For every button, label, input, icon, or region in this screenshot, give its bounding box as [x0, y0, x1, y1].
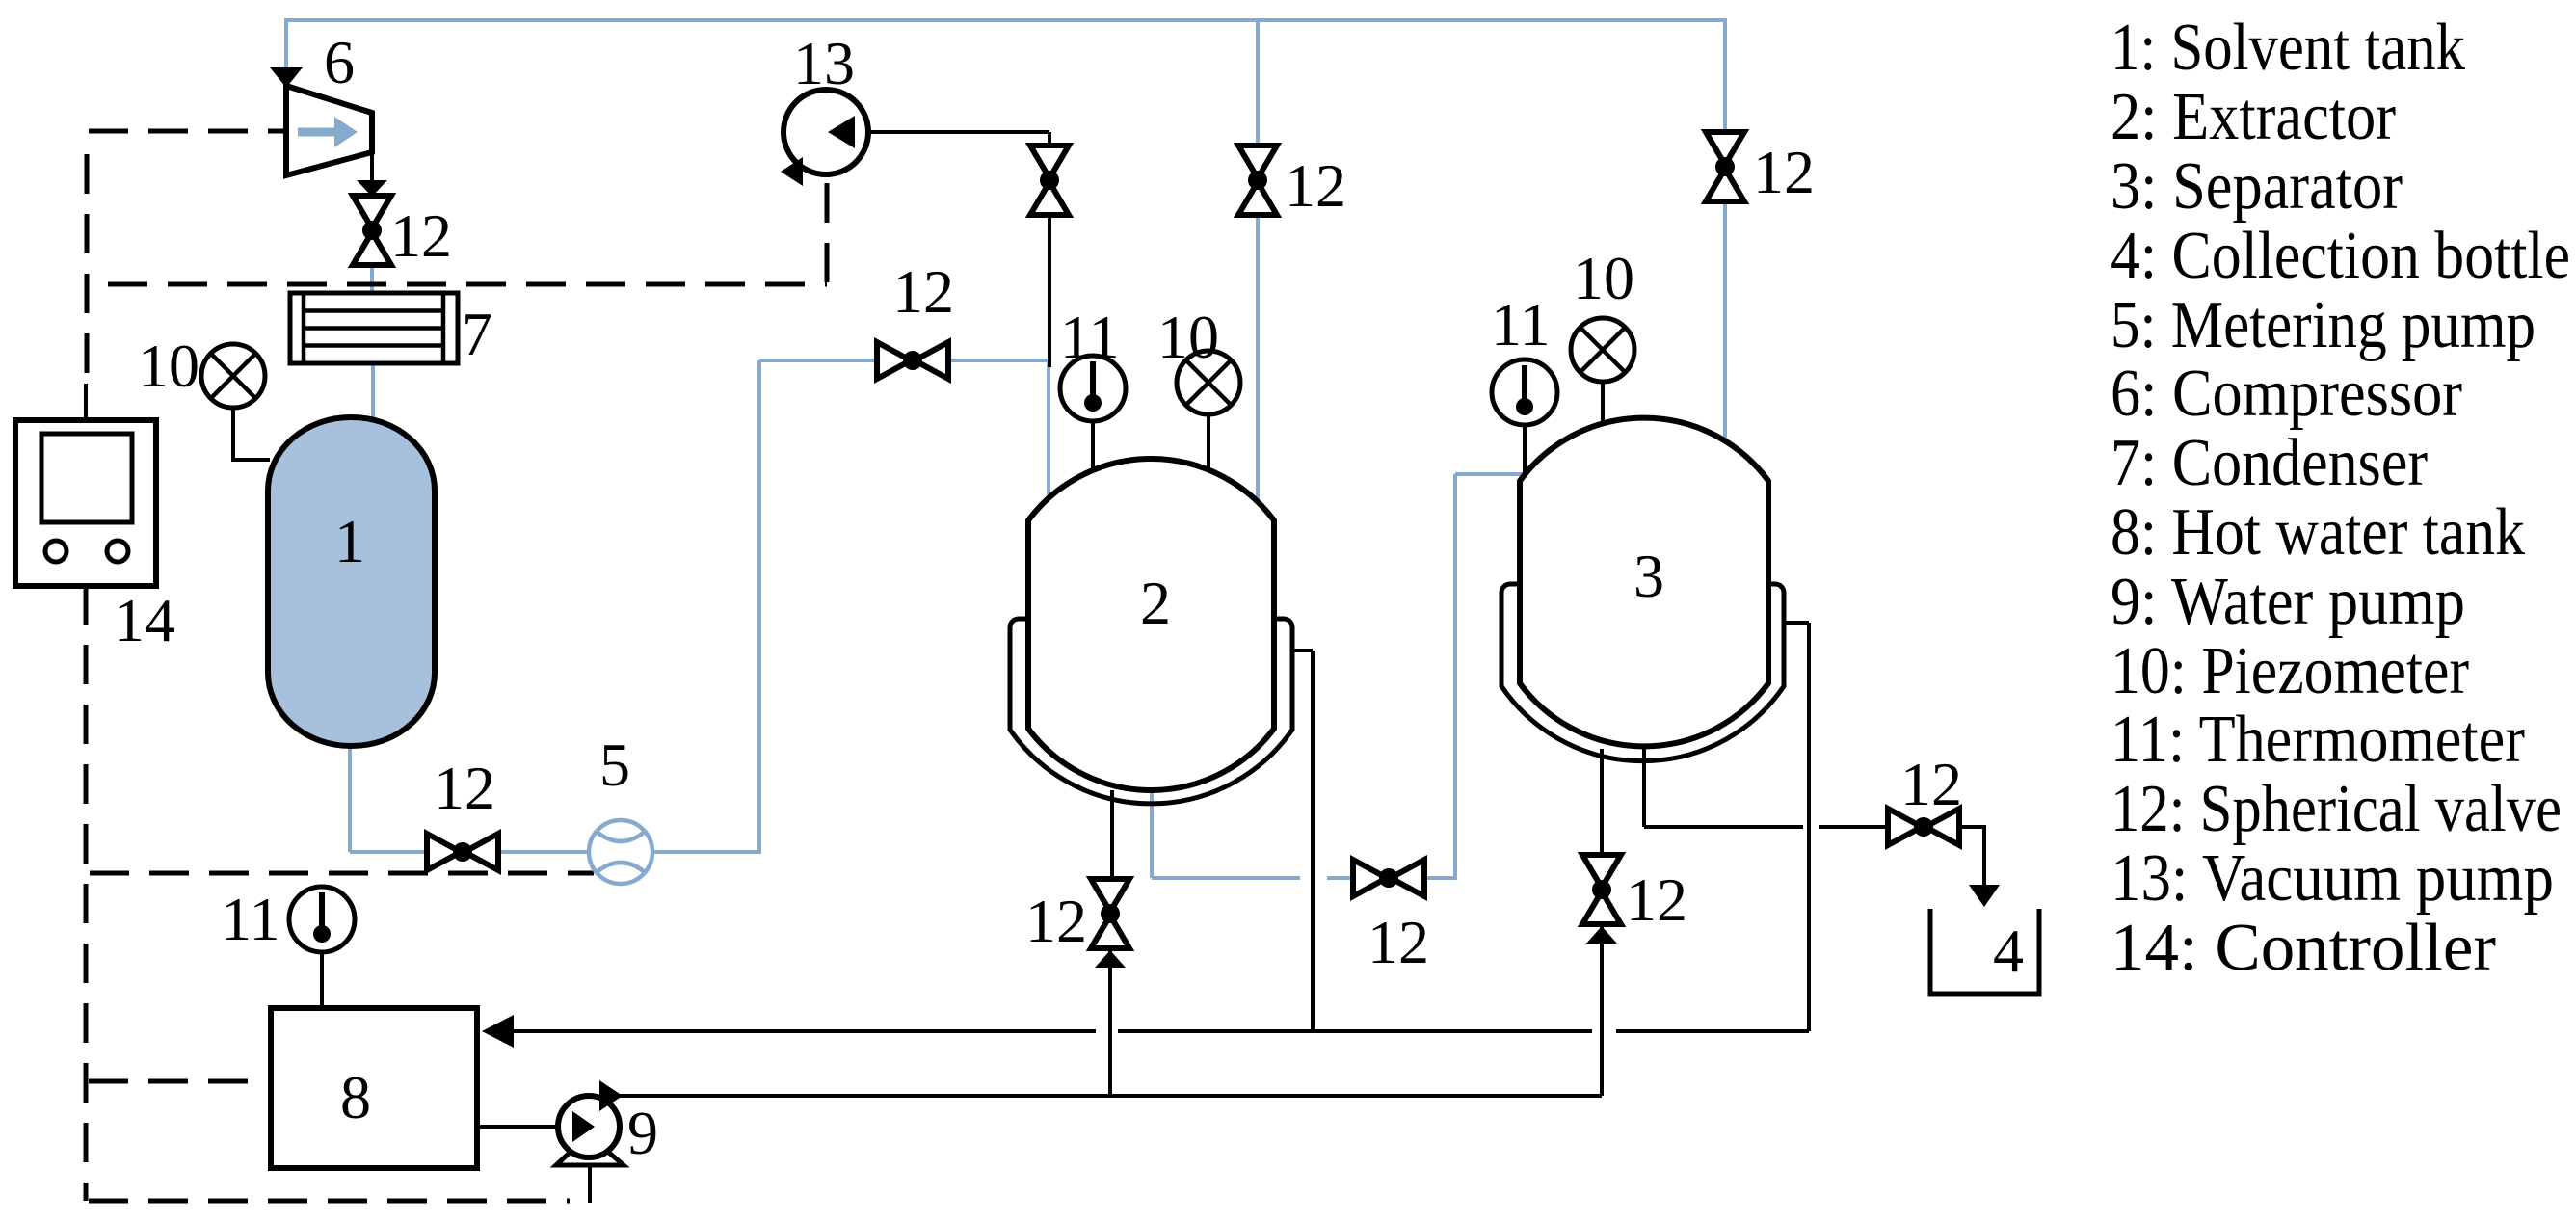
wire separator drain1 lower to supply line: [1600, 924, 1604, 1096]
wire blue extractor outlet horizontal to valve12g: [1327, 876, 1354, 880]
svg-text:7: Condenser: 7: Condenser: [2111, 426, 2428, 500]
wire hot water return middle segment: [1118, 1029, 1592, 1033]
thermometer 11b: [1060, 356, 1126, 421]
wire compressor outlet down: [370, 150, 374, 183]
svg-text:13: 13: [793, 29, 855, 97]
svg-text:14: Controller: 14: Controller: [2111, 911, 2496, 985]
svg-text:9: Water pump: 9: Water pump: [2111, 565, 2465, 639]
condenser 7: [290, 293, 458, 363]
svg-text:10: 10: [1157, 303, 1219, 371]
valve 12i bottle line: [1888, 809, 1959, 845]
wire extractor jacket stub: [1291, 649, 1313, 652]
svg-text:12: 12: [1753, 138, 1815, 206]
svg-text:4: 4: [1993, 917, 2024, 985]
wire extractor drain lower to supply line: [1108, 948, 1112, 1096]
controller 14: [15, 420, 156, 586]
wire blue top header: [286, 18, 1725, 22]
svg-text:5: Metering pump: 5: Metering pump: [2111, 288, 2536, 362]
valve 12f blue line: [877, 342, 948, 379]
svg-text:5: 5: [599, 731, 630, 799]
wire blue riser2 to separator left inlet: [1455, 472, 1523, 476]
dashed control riser to vacuum pump: [825, 176, 830, 282]
DASHED control lines: [86, 131, 827, 1201]
PIPES-BLUE: [286, 18, 1725, 880]
wire separator drain2 horizontal to valve12i: [1819, 825, 1887, 829]
metering pump 5: [589, 820, 652, 884]
arrow up separator drain: [1586, 926, 1617, 944]
dashed control left riser upper: [85, 154, 90, 384]
valve 12b vacuum line: [1030, 146, 1069, 215]
wire pump9 suction from tank8: [477, 1125, 574, 1129]
valve 12d separator top: [1706, 132, 1744, 201]
svg-text:12: 12: [892, 257, 954, 326]
svg-text:1: 1: [334, 507, 365, 575]
arrow down into bottle: [1969, 885, 2000, 907]
svg-text:10: 10: [138, 332, 199, 400]
vacuum pump 13: [781, 90, 868, 186]
svg-text:13: Vacuum pump: 13: Vacuum pump: [2111, 841, 2554, 916]
valve 12g extractor outlet blue: [1353, 860, 1424, 896]
wire separator drain2 horizontal left of crossing: [1644, 825, 1803, 829]
wire vacuum valve drop lower: [1048, 213, 1051, 367]
dashed control left riser lower: [84, 585, 89, 1201]
wire separator drain2 down: [1642, 749, 1646, 827]
svg-text:8: Hot water tank: 8: Hot water tank: [2111, 495, 2525, 570]
wire separator drain1 upper: [1600, 749, 1604, 855]
svg-text:12: 12: [1285, 151, 1346, 220]
wire extractor drain upper: [1110, 790, 1114, 879]
svg-text:6: 6: [324, 28, 355, 96]
svg-text:10: Piezometer: 10: Piezometer: [2111, 634, 2469, 708]
compressor 6: [270, 67, 372, 175]
wire piezometer10a to tank1: [233, 408, 270, 460]
wire blue condenser to tank1: [371, 363, 375, 418]
wire vacuum valve drop upper: [1048, 132, 1051, 147]
wire blue valve12d to separator dome: [1723, 201, 1727, 441]
wire thermometer11b stem to extractor: [1091, 421, 1095, 470]
svg-text:1: Solvent tank: 1: Solvent tank: [2111, 11, 2465, 85]
wire hot water return left segment: [513, 1029, 1096, 1033]
PIPES-BLACK: [86, 132, 1984, 1203]
svg-text:11: Thermometer: 11: Thermometer: [2111, 703, 2525, 777]
svg-text:8: 8: [340, 1063, 371, 1131]
wire pump9 stand stub: [588, 1166, 592, 1203]
svg-text:11: 11: [1491, 290, 1551, 359]
wire blue extractor outlet horizontal left part: [1152, 876, 1300, 880]
wire blue tank1 to valve12e: [350, 850, 428, 854]
svg-text:2: Extractor: 2: Extractor: [2111, 80, 2396, 154]
valve 12a compressor outlet: [353, 196, 391, 265]
wire blue compressor valve to condenser: [370, 261, 374, 294]
piezometer 10a: [201, 344, 265, 408]
wire blue riser2 up: [1453, 474, 1457, 880]
wire blue drop to separator valve: [1723, 18, 1727, 134]
extractor jacket: [1010, 619, 1292, 804]
wire blue riser to valve12f: [759, 359, 878, 362]
arrow return into tank8: [482, 1015, 514, 1048]
svg-text:12: 12: [1626, 865, 1687, 934]
wire piezometer10c stem to separator: [1601, 382, 1605, 425]
svg-text:11: 11: [1060, 303, 1120, 371]
thermometer 11a: [289, 887, 355, 952]
collection bottle 4: [1930, 909, 2039, 994]
svg-text:12: 12: [390, 201, 452, 270]
svg-text:14: 14: [114, 586, 175, 654]
svg-text:9: 9: [627, 1099, 658, 1167]
wire blue valve12c to extractor dome: [1256, 214, 1260, 500]
valve 12h extractor drain: [1091, 879, 1129, 948]
svg-text:12: 12: [1025, 887, 1087, 955]
extractor 2: [1028, 459, 1274, 790]
wire blue valve12f to extractor junction: [947, 359, 1049, 362]
wire controller stem: [84, 384, 88, 420]
svg-text:4: Collection bottle: 4: Collection bottle: [2111, 219, 2570, 293]
thermometer 11c: [1492, 359, 1557, 425]
arrow compressor outlet: [357, 180, 387, 197]
wire separator jacket stub: [1784, 621, 1809, 625]
wire hot water supply line: [618, 1094, 1602, 1098]
arrow up extractor drain: [1095, 950, 1126, 968]
wire blue metering pump to riser: [652, 850, 759, 854]
wire piezometer10b stem to extractor: [1207, 414, 1210, 471]
legend: [2111, 11, 2570, 985]
wire blue tank1 outlet down: [348, 744, 352, 852]
piezometer 10c: [1571, 318, 1634, 382]
svg-text:2: 2: [1140, 569, 1171, 637]
dashed control to hot water tank: [89, 1079, 271, 1084]
svg-text:6: Compressor: 6: Compressor: [2111, 357, 2462, 431]
dashed control to metering pump: [90, 871, 594, 876]
svg-text:3: Separator: 3: Separator: [2111, 149, 2403, 224]
wire valve12i to bottle drop: [1960, 827, 1984, 887]
valve 12j separator drain: [1582, 855, 1621, 924]
svg-text:3: 3: [1633, 542, 1664, 610]
wire blue drop to compressor inlet: [284, 18, 288, 67]
valve 12e tank1 outlet: [427, 834, 498, 870]
svg-text:12: 12: [1900, 750, 1962, 818]
dashed control to compressor: [89, 129, 283, 134]
wire thermometer11c stem to separator: [1523, 425, 1527, 476]
hot water tank 8: [271, 1008, 477, 1168]
dashed control to metering pump: [108, 282, 827, 287]
wire vacuum pump suction header: [848, 130, 1049, 134]
wire blue junction down to extractor dome left: [1047, 359, 1050, 500]
piezometer 10b: [1177, 351, 1240, 414]
solvent tank 1: [268, 417, 435, 746]
wire extractor jacket return drop: [1311, 651, 1315, 1031]
wire thermometer11a stem to tank8: [320, 951, 324, 1008]
svg-text:12: 12: [1368, 908, 1429, 976]
wire blue extractor bottom outlet: [1150, 786, 1154, 878]
separator jacket: [1501, 584, 1784, 761]
svg-text:7: 7: [462, 300, 492, 368]
valve 12c extractor top right: [1238, 146, 1277, 215]
separator 3: [1520, 418, 1768, 747]
wire blue valve12e to metering pump: [497, 850, 589, 854]
wire blue riser up: [757, 360, 761, 854]
dashed control bottom to water pump: [89, 1199, 570, 1204]
svg-text:12: Spherical valve: 12: Spherical valve: [2111, 772, 2562, 846]
svg-text:10: 10: [1573, 244, 1634, 312]
wire blue drop to extractor top-right valve: [1256, 20, 1260, 146]
svg-text:12: 12: [434, 754, 495, 822]
water pump 9: [556, 1080, 624, 1165]
wire separator jacket return drop: [1807, 623, 1811, 1031]
svg-text:11: 11: [221, 885, 280, 953]
wire hot water return right segment: [1616, 1029, 1809, 1033]
wire blue valve12g to riser2: [1423, 876, 1455, 880]
